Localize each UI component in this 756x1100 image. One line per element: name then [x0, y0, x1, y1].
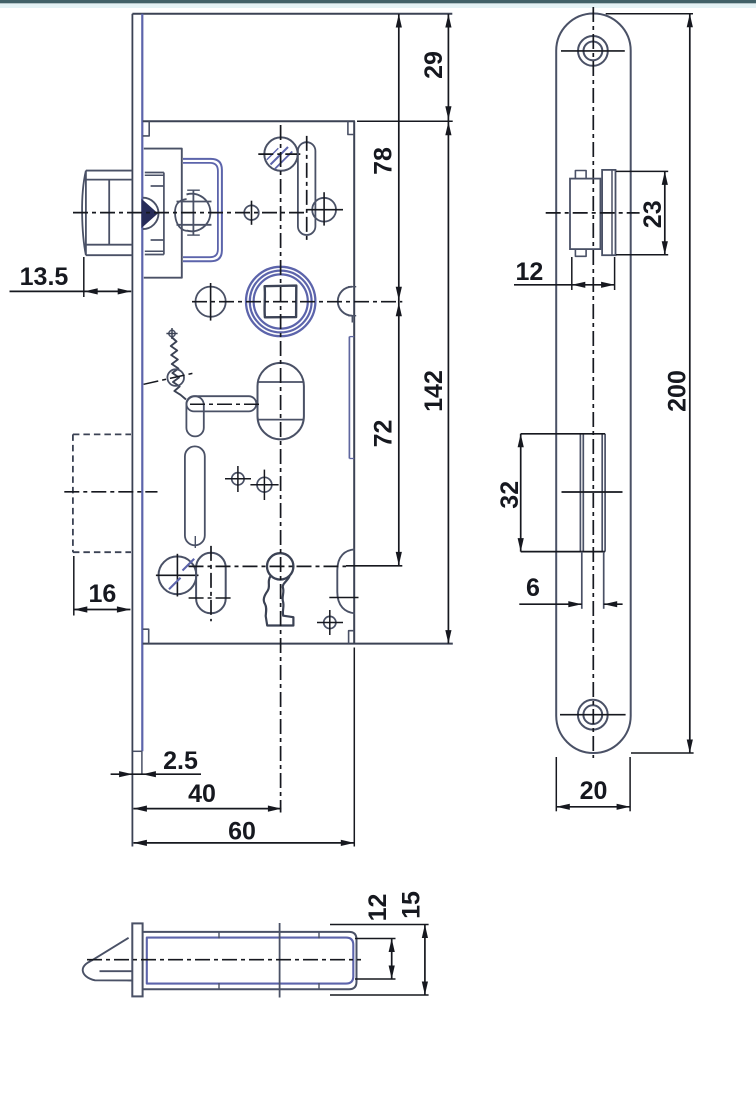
svg-text:20: 20 — [580, 777, 608, 805]
svg-text:15: 15 — [398, 891, 426, 919]
svg-text:29: 29 — [420, 51, 448, 79]
svg-text:40: 40 — [188, 780, 216, 808]
svg-text:72: 72 — [370, 420, 398, 448]
svg-text:12: 12 — [364, 894, 392, 922]
svg-text:23: 23 — [639, 200, 667, 228]
svg-text:60: 60 — [228, 818, 256, 846]
svg-text:13.5: 13.5 — [20, 263, 69, 291]
svg-text:2.5: 2.5 — [163, 747, 198, 775]
svg-text:200: 200 — [664, 370, 692, 412]
svg-text:142: 142 — [420, 370, 448, 412]
svg-text:78: 78 — [370, 147, 398, 175]
svg-text:32: 32 — [496, 481, 524, 509]
svg-text:6: 6 — [526, 574, 540, 602]
svg-text:16: 16 — [88, 580, 116, 608]
svg-text:12: 12 — [515, 258, 543, 286]
